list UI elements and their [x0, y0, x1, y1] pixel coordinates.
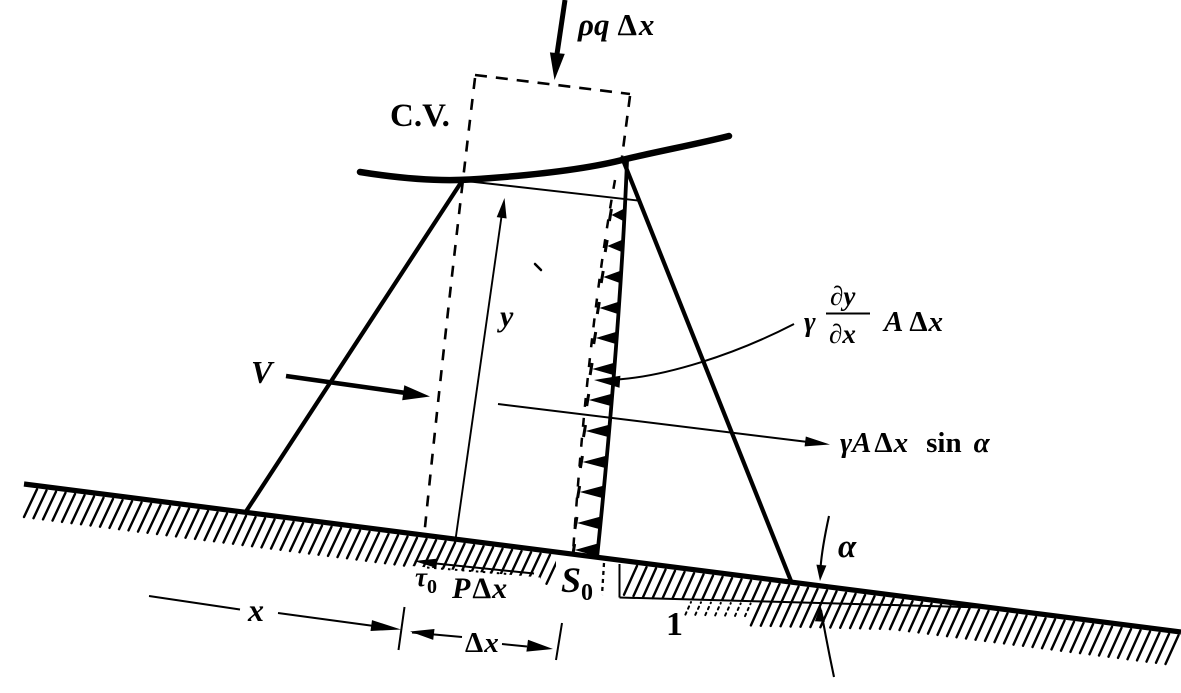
svg-text:∂x: ∂x: [829, 319, 856, 349]
leader curve to pressure label: [618, 324, 794, 380]
weight component arrow: [498, 404, 808, 442]
gap for tau0 label: [406, 566, 540, 597]
right slanted ray from surface to bed: [623, 160, 791, 581]
svg-text:y: y: [497, 300, 514, 333]
channel bed hatching: [24, 489, 1179, 664]
dotted band boundary under shear arrow: [427, 568, 508, 575]
section 2 face (pressure face): [597, 161, 627, 558]
svg-text:1: 1: [666, 606, 683, 643]
svg-text:γ: γ: [804, 307, 816, 338]
angle alpha upper arc arrow: [821, 516, 830, 568]
left slanted ray from surface to bed: [245, 181, 462, 513]
C.V. dashed top edge: [475, 75, 630, 94]
hydrostatic pressure arrows on face 2: [573, 209, 624, 556]
depth dimension arrow y: [455, 206, 503, 543]
C.V. dashed right edge upper: [622, 96, 630, 157]
svg-text:x: x: [247, 592, 264, 628]
water surface: [360, 136, 729, 180]
channel bed top edge: [24, 484, 1181, 632]
gap for S0 label: [556, 545, 621, 600]
C.V. dashed left edge: [424, 78, 475, 537]
svg-text:C.V.: C.V.: [390, 98, 450, 134]
svg-text:V: V: [251, 354, 275, 390]
svg-text:Δx: Δx: [465, 627, 499, 659]
inflow arrow rho q dx: [557, 0, 565, 54]
shear force arrow tau0 P dx: [436, 564, 534, 574]
svg-text:AΔx: AΔx: [882, 306, 943, 338]
step below S0: [619, 564, 621, 598]
horizontal datum line (run = 1): [620, 598, 1001, 609]
angle alpha lower arc arrow: [815, 606, 825, 622]
C.V. dashed right edge / pressure arrow tip line: [573, 180, 615, 553]
svg-text:PΔx: PΔx: [451, 572, 507, 605]
velocity arrow V: [286, 376, 406, 393]
svg-text:∂y: ∂y: [830, 281, 856, 311]
stray scan speck: [535, 264, 541, 270]
svg-text:α: α: [838, 529, 857, 565]
x dimension line: [149, 596, 240, 610]
dotted tick right of S0: [602, 563, 604, 595]
tick at right end of delta-x: [556, 623, 562, 660]
tick between x and delta-x: [399, 607, 405, 650]
delta-x dimension: [410, 629, 435, 640]
water surface chord inside C.V.: [466, 181, 638, 201]
